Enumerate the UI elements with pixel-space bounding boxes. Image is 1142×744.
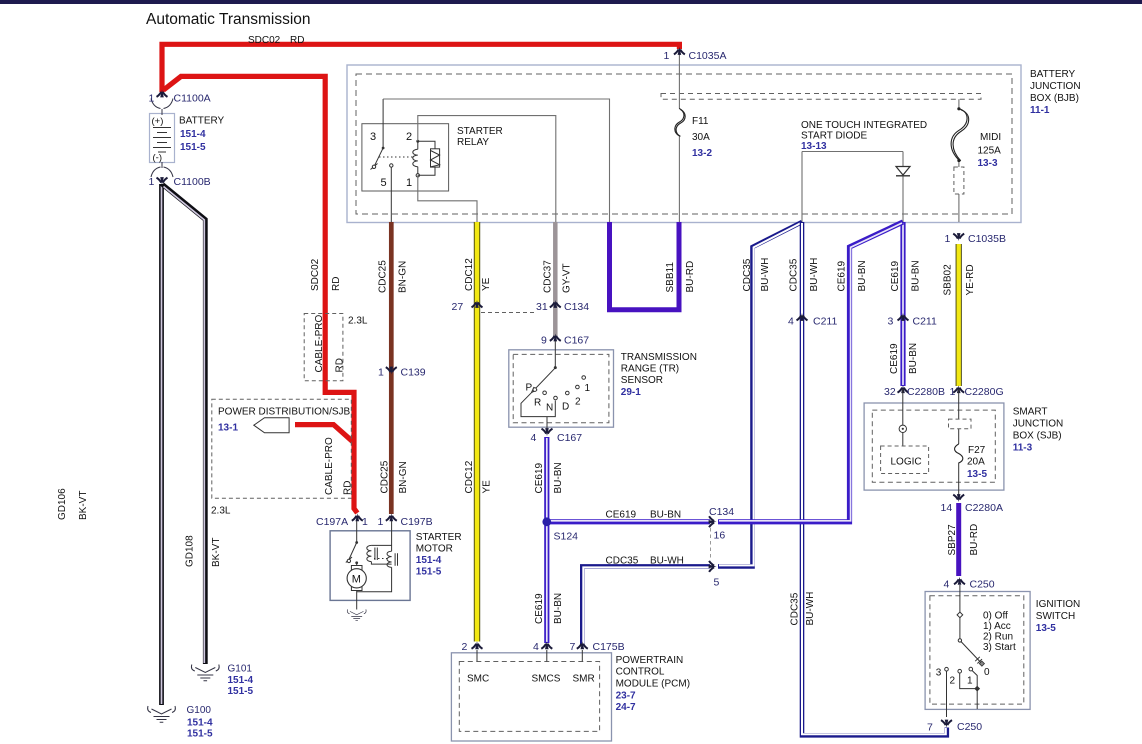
svg-text:S124: S124: [554, 531, 579, 543]
svg-text:1: 1: [945, 233, 951, 245]
label MIDI 125A 13-3: [978, 132, 1002, 169]
svg-text:CDC37: CDC37: [543, 260, 554, 293]
label CE619 BU-BN (above S124): [534, 462, 564, 493]
svg-text:SENSOR: SENSOR: [621, 375, 663, 386]
svg-text:1: 1: [362, 516, 368, 528]
wire SBB11 BU-RD (U shape): [610, 222, 680, 310]
connector 4 C250: [954, 577, 965, 585]
svg-text:CDC12: CDC12: [464, 460, 475, 493]
dashed connector line C134: [710, 528, 712, 560]
label GD106 BK-VT: [57, 488, 89, 520]
svg-text:POWER DISTRIBUTION/SJB: POWER DISTRIBUTION/SJB: [218, 407, 351, 418]
svg-text:BU-RD: BU-RD: [685, 261, 696, 293]
wire relay pin3 to SBB11 (internal BJB): [383, 99, 609, 222]
svg-text:BU-BN: BU-BN: [553, 593, 564, 624]
svg-text:BOX (SJB): BOX (SJB): [1013, 431, 1062, 442]
svg-text:31: 31: [536, 301, 548, 313]
svg-text:C167: C167: [564, 335, 589, 347]
svg-text:1: 1: [664, 50, 670, 62]
power distribution dashed box: [212, 399, 351, 498]
svg-text:C1035A: C1035A: [689, 50, 727, 62]
svg-text:GY-VT: GY-VT: [562, 263, 573, 293]
svg-text:16: 16: [714, 530, 726, 542]
svg-text:CE619: CE619: [534, 593, 545, 624]
wire SDC02 RD battery to C1035A (red top): [162, 44, 679, 92]
label CABLE-PRO RD (top box): [314, 314, 345, 372]
svg-text:11-1: 11-1: [1030, 105, 1050, 116]
svg-text:JUNCTION: JUNCTION: [1013, 419, 1064, 430]
connector 31 C134: [550, 300, 561, 308]
svg-text:RD: RD: [343, 481, 354, 495]
ground G100: [148, 706, 176, 722]
svg-text:BU-WH: BU-WH: [650, 556, 684, 567]
connector C134 pin 5: [709, 561, 717, 572]
svg-text:POWERTRAIN: POWERTRAIN: [616, 655, 684, 666]
LOGIC dashed box: [881, 446, 929, 474]
PCM inner dashed: [459, 662, 599, 732]
svg-text:1: 1: [149, 93, 155, 105]
power distribution pentagon arrow: [254, 418, 289, 433]
label POWER DISTRIBUTION/SJB 13-1: [218, 407, 351, 434]
svg-text:2: 2: [950, 676, 956, 687]
TR sensor terminals: [533, 376, 586, 400]
svg-text:C1035B: C1035B: [968, 233, 1006, 245]
splice S124: [542, 517, 551, 526]
label SBB02 YE-RD: [942, 264, 976, 296]
svg-text:125A: 125A: [978, 146, 1002, 157]
svg-text:4: 4: [944, 579, 950, 591]
connector C134 pin 16: [709, 516, 717, 527]
connector C197B: [386, 513, 397, 521]
wire CE619 BU-BN (diode to LOGIC branch): [900, 222, 905, 386]
svg-text:BU-BN: BU-BN: [908, 343, 919, 374]
svg-text:MOTOR: MOTOR: [416, 544, 453, 555]
label TRANSMISSION RANGE (TR) SENSOR 29-1: [621, 352, 697, 398]
label SDC02 RD (vertical): [310, 258, 342, 291]
svg-text:G101: G101: [228, 664, 253, 675]
svg-text:MODULE (PCM): MODULE (PCM): [616, 679, 690, 690]
svg-text:N: N: [546, 403, 553, 414]
svg-text:2.3L: 2.3L: [211, 506, 231, 517]
svg-text:C197A: C197A: [316, 516, 348, 528]
wire CDC35 BU-WH (diode to C134-5 branch): [718, 222, 802, 566]
svg-text:SMART: SMART: [1013, 407, 1048, 418]
svg-text:13-5: 13-5: [967, 469, 987, 480]
svg-text:151-4: 151-4: [228, 675, 254, 686]
svg-text:7: 7: [927, 722, 933, 734]
relay pin labels 3 2 5 1: [370, 131, 412, 189]
TR sensor selector: [521, 341, 555, 433]
svg-text:SWITCH: SWITCH: [1036, 611, 1075, 622]
MIDI holder dashed: [954, 167, 964, 194]
svg-text:BN-GN: BN-GN: [398, 461, 409, 493]
smart junction box SJB: [864, 403, 1004, 490]
svg-text:G100: G100: [187, 705, 212, 716]
svg-text:SBB11: SBB11: [665, 262, 676, 293]
connector C197A: [352, 513, 363, 521]
label CDC25 BN-GN (upper): [377, 260, 408, 293]
svg-text:C134: C134: [709, 506, 734, 518]
relay terminal 5 circle: [390, 164, 393, 167]
svg-text:CDC25: CDC25: [377, 260, 388, 293]
svg-text:C1100B: C1100B: [174, 176, 211, 188]
svg-text:Automatic Transmission: Automatic Transmission: [146, 11, 311, 28]
TR sensor position letters: [526, 383, 591, 414]
connector pin 27: [472, 300, 483, 308]
label CDC25 BN-GN (lower): [380, 460, 410, 493]
label POWERTRAIN CONTROL MODULE (PCM) 23-7 24-7: [616, 655, 690, 713]
svg-text:5: 5: [381, 177, 387, 189]
svg-text:BK-VT: BK-VT: [211, 538, 222, 567]
label CDC35 BU-WH (pair 1): [742, 258, 771, 292]
svg-text:1: 1: [585, 383, 591, 394]
connector C1035A: [674, 47, 685, 55]
svg-text:CE619: CE619: [836, 260, 847, 291]
svg-text:RD: RD: [334, 358, 345, 372]
svg-text:32: 32: [884, 386, 896, 398]
svg-text:C2280G: C2280G: [965, 386, 1004, 398]
svg-text:CABLE-PRO: CABLE-PRO: [314, 314, 325, 372]
svg-text:SDC02: SDC02: [248, 35, 281, 46]
svg-text:BU-WH: BU-WH: [805, 592, 816, 626]
svg-text:1: 1: [967, 676, 973, 687]
svg-text:M: M: [352, 574, 361, 586]
svg-text:SMC: SMC: [467, 674, 489, 685]
ignition switch internals: [947, 585, 983, 717]
svg-text:P: P: [526, 383, 533, 394]
svg-text:13-2: 13-2: [692, 148, 712, 159]
wire SDC02 RD battery to C197A (red branch): [164, 76, 358, 513]
svg-text:SDC02: SDC02: [310, 258, 321, 291]
svg-text:START DIODE: START DIODE: [801, 131, 867, 142]
svg-text:CDC35: CDC35: [789, 592, 800, 625]
relay coil-resistor connections: [418, 141, 435, 175]
svg-text:CE619: CE619: [890, 260, 901, 291]
svg-text:5: 5: [714, 577, 720, 589]
label SBB11 BU-RD: [665, 261, 696, 293]
connector C139: [386, 367, 397, 375]
starter relay box: [362, 124, 449, 191]
svg-text:3: 3: [370, 131, 376, 143]
svg-text:CDC35: CDC35: [606, 556, 639, 567]
SJB fuse F27 wiring: [958, 389, 960, 498]
svg-text:13-3: 13-3: [978, 158, 998, 169]
svg-text:CDC35: CDC35: [789, 258, 800, 291]
svg-text:C175B: C175B: [593, 641, 625, 653]
wire SBP27 BU-RD: [956, 503, 961, 576]
svg-text:RANGE (TR): RANGE (TR): [621, 364, 679, 375]
svg-text:CONTROL: CONTROL: [616, 667, 665, 678]
label CE619 BU-BN (pair 2): [890, 260, 922, 291]
F27 holder dashed: [949, 419, 972, 429]
wire CE619 BU-BN S124 to C134-16 (horizontal): [548, 521, 710, 522]
svg-text:151-5: 151-5: [228, 686, 254, 697]
fuse MIDI wiring: [958, 99, 960, 222]
label CDC12 YE (lower): [464, 460, 493, 493]
label SBP27 BU-RD: [947, 524, 980, 556]
relay resistor: [431, 149, 440, 167]
diode D1: [896, 167, 910, 176]
label STARTER RELAY: [457, 126, 503, 148]
label BATTERY 151-4 151-5: [179, 116, 225, 154]
svg-text:LOGIC: LOGIC: [891, 457, 922, 468]
svg-text:YE: YE: [482, 480, 493, 494]
svg-text:0) Off: 0) Off: [983, 611, 1008, 622]
svg-text:F27: F27: [968, 445, 986, 456]
svg-text:CDC12: CDC12: [464, 258, 475, 291]
svg-text:24-7: 24-7: [616, 702, 636, 713]
svg-text:2: 2: [406, 131, 412, 143]
svg-text:RELAY: RELAY: [457, 137, 489, 148]
svg-text:C211: C211: [813, 316, 837, 328]
svg-text:ONE TOUCH INTEGRATED: ONE TOUCH INTEGRATED: [801, 120, 927, 131]
label SMART JUNCTION BOX (SJB) 11-3: [1013, 407, 1064, 454]
connector C1035B: [953, 233, 964, 241]
label CE619 BU-BN (below S124): [534, 593, 564, 624]
ignition inner dashed: [930, 596, 1024, 704]
svg-text:1) Acc: 1) Acc: [983, 621, 1011, 632]
svg-text:JUNCTION: JUNCTION: [1030, 81, 1081, 92]
svg-text:CDC35: CDC35: [742, 258, 753, 291]
svg-text:1: 1: [149, 176, 155, 188]
svg-text:3: 3: [936, 668, 942, 679]
svg-text:RD: RD: [290, 35, 304, 46]
connector C1100B: [151, 162, 173, 177]
dashed link pin27 to C134: [481, 312, 537, 314]
svg-text:CE619: CE619: [889, 343, 900, 374]
connector 3 C211: [898, 313, 909, 321]
wire CDC12 YE: [474, 222, 480, 642]
label CDC37 GY-VT: [543, 260, 573, 293]
connector 9 C167: [550, 334, 561, 342]
svg-text:C250: C250: [957, 721, 982, 733]
svg-text:4: 4: [533, 641, 539, 653]
svg-text:(+): (+): [152, 116, 164, 127]
relay switch blade: [371, 99, 384, 170]
label CDC35 BU-WH (ignition riser): [789, 592, 816, 626]
powertrain control module PCM box: [451, 653, 611, 741]
svg-text:BATTERY: BATTERY: [179, 116, 225, 127]
svg-text:13-1: 13-1: [218, 423, 238, 434]
label CE619 BU-BN (below C211): [889, 343, 919, 374]
ignition positions legend: [983, 611, 1016, 654]
svg-text:151-4: 151-4: [180, 129, 206, 140]
fuse F27: [955, 444, 963, 463]
PCM pin 7 SMR C175B: [577, 641, 588, 649]
wire CE619 BU-BN TR sensor to S124 to PCM: [544, 437, 549, 643]
svg-text:RD: RD: [331, 277, 342, 291]
ignition switch box: [925, 592, 1030, 710]
connector 4 C211: [797, 313, 808, 321]
svg-text:151-4: 151-4: [187, 718, 213, 729]
svg-text:2: 2: [575, 397, 581, 408]
svg-text:3) Start: 3) Start: [983, 642, 1016, 653]
svg-text:BU-WH: BU-WH: [760, 258, 771, 292]
ground (starter motor): [347, 609, 366, 620]
svg-text:STARTER: STARTER: [457, 126, 503, 137]
svg-text:151-5: 151-5: [180, 142, 206, 153]
svg-text:CE619: CE619: [606, 510, 637, 521]
connector 4 C167: [542, 428, 553, 436]
SJB logic input symbol: [902, 389, 904, 425]
svg-text:(-): (-): [153, 153, 163, 164]
svg-text:BK-VT: BK-VT: [78, 491, 89, 520]
svg-text:13-13: 13-13: [801, 141, 827, 152]
fuse MIDI: [951, 109, 967, 161]
svg-text:C134: C134: [564, 301, 589, 313]
svg-text:CABLE-PRO: CABLE-PRO: [324, 437, 335, 495]
svg-text:TRANSMISSION: TRANSMISSION: [621, 352, 697, 363]
svg-text:C167: C167: [557, 432, 582, 444]
cable-pro dashed box (top): [304, 314, 343, 381]
svg-text:MIDI: MIDI: [980, 132, 1001, 143]
fuse F11: [675, 108, 684, 135]
svg-text:11-3: 11-3: [1013, 443, 1033, 454]
relay terminal 3 pivot dot: [382, 147, 385, 150]
svg-text:R: R: [534, 398, 541, 409]
label STARTER MOTOR 151-4 151-5: [416, 532, 462, 578]
SJB inner dashed: [872, 410, 995, 482]
svg-text:SBP27: SBP27: [947, 524, 958, 556]
label CE619 BU-BN (pair 1): [836, 260, 868, 291]
svg-text:YE-RD: YE-RD: [965, 264, 976, 295]
wire CDC25 BN-GN: [389, 222, 394, 514]
label SDC02 RD (top): [248, 35, 304, 46]
transmission range sensor box: [509, 350, 614, 427]
svg-text:C2280B: C2280B: [907, 386, 945, 398]
label CABLE-PRO RD (power box): [324, 437, 354, 495]
svg-text:IGNITION: IGNITION: [1036, 599, 1080, 610]
svg-text:BU-BN: BU-BN: [650, 510, 681, 521]
wire SBB02 YE-RD: [956, 244, 962, 386]
svg-text:GD108: GD108: [185, 535, 196, 567]
svg-text:C211: C211: [913, 316, 937, 328]
wire CABLE-PRO RD stub to power distribution: [295, 425, 355, 444]
one touch integrated start diode wiring: [802, 152, 903, 223]
wire CDC37 GY-VT: [553, 222, 558, 336]
PCM pin 4 SMCS: [541, 641, 552, 649]
label F27 20A 13-5: [967, 445, 987, 480]
starter motor M: [351, 566, 362, 591]
connector 14 C2280A: [953, 494, 964, 502]
battery symbol: [150, 114, 175, 163]
svg-text:13-5: 13-5: [1036, 623, 1056, 634]
starter motor switch: [346, 521, 357, 566]
svg-text:BU-BN: BU-BN: [857, 260, 868, 291]
svg-text:1: 1: [378, 516, 384, 528]
relay contact circle pin 3 side: [372, 165, 375, 168]
svg-text:2) Run: 2) Run: [983, 632, 1013, 643]
connector 1 C2280G: [953, 385, 964, 393]
wire relay pin1 to CDC12 (internal BJB): [418, 176, 477, 223]
svg-text:CE619: CE619: [534, 462, 545, 493]
PCM pin 2 SMC: [472, 641, 483, 649]
svg-text:2: 2: [462, 641, 468, 653]
connector C1100A: [157, 90, 168, 98]
svg-text:C197B: C197B: [401, 516, 433, 528]
label BATTERY JUNCTION BOX (BJB) 11-1: [1030, 69, 1081, 116]
svg-text:BN-GN: BN-GN: [397, 261, 408, 293]
svg-text:151-5: 151-5: [187, 729, 213, 740]
svg-text:F11: F11: [692, 116, 709, 127]
svg-text:BU-WH: BU-WH: [809, 258, 820, 292]
battery cable BK-VT to G100: [159, 184, 164, 705]
TR sensor inner dashed: [513, 354, 609, 422]
svg-text:4: 4: [788, 316, 794, 328]
svg-text:C2280A: C2280A: [965, 502, 1003, 514]
ground G101: [191, 665, 219, 681]
relay armature dotted link: [379, 156, 414, 158]
svg-text:23-7: 23-7: [616, 690, 636, 701]
top navy bar: [0, 0, 1142, 4]
connector 32 C2280B: [898, 385, 909, 393]
starter motor solenoid windings: [357, 521, 398, 592]
svg-text:1: 1: [378, 367, 384, 379]
starter motor box: [330, 531, 410, 601]
label F11 30A 13-2: [692, 116, 712, 159]
svg-text:C139: C139: [401, 367, 426, 379]
svg-text:STARTER: STARTER: [416, 532, 462, 543]
BJB bus bar dashed: [661, 94, 981, 100]
label CE619 BU-BN (horizontal run): [606, 510, 682, 521]
relay coil terminal dots: [416, 140, 419, 143]
svg-text:BOX (BJB): BOX (BJB): [1030, 93, 1079, 104]
svg-text:SMCS: SMCS: [532, 674, 561, 685]
svg-text:BU-RD: BU-RD: [969, 524, 980, 556]
label GD108 BK-VT: [185, 535, 222, 567]
svg-text:1: 1: [950, 386, 956, 398]
connector 7 C250: [941, 720, 952, 728]
svg-text:4: 4: [531, 432, 537, 444]
label CDC35 BU-WH (pair 2): [789, 258, 821, 292]
wire CDC35 BU-WH PCM SMR to C134-5 (horizontal): [582, 566, 710, 645]
svg-text:YE: YE: [481, 277, 492, 291]
svg-text:2.3L: 2.3L: [348, 316, 368, 327]
svg-text:SBB02: SBB02: [942, 264, 953, 296]
ignition terminal labels: [936, 667, 990, 687]
svg-text:0: 0: [984, 667, 990, 678]
svg-text:151-4: 151-4: [416, 555, 442, 566]
svg-text:CDC25: CDC25: [380, 460, 391, 493]
svg-text:3: 3: [888, 316, 894, 328]
svg-text:9: 9: [541, 335, 547, 347]
svg-text:151-5: 151-5: [416, 567, 442, 578]
svg-text:14: 14: [941, 502, 953, 514]
relay pin5 wire to BJB bottom: [390, 167, 392, 222]
label CDC12 YE (upper): [464, 258, 492, 291]
label ONE TOUCH INTEGRATED START DIODE 13-13: [801, 120, 927, 152]
svg-text:29-1: 29-1: [621, 387, 641, 398]
label CDC35 BU-WH (horizontal run): [606, 556, 684, 567]
svg-text:1: 1: [406, 177, 412, 189]
label IGNITION SWITCH 13-5: [1036, 599, 1080, 634]
svg-text:7: 7: [570, 641, 576, 653]
svg-text:GD106: GD106: [57, 488, 68, 520]
svg-text:SMR: SMR: [573, 674, 595, 685]
wire CE619 BU-BN (diode to C134-16 branch): [718, 222, 903, 522]
svg-text:D: D: [562, 402, 569, 413]
battery junction box BJB outer: [347, 65, 1021, 223]
svg-text:BU-BN: BU-BN: [553, 462, 564, 493]
battery cable BK-VT to G101: [163, 185, 206, 665]
wire relay pin2 to CDC37 (internal BJB): [418, 116, 556, 222]
svg-text:BU-BN: BU-BN: [910, 260, 921, 291]
starter motor ground lead: [356, 591, 358, 610]
battery junction box BJB inner dashed: [356, 74, 1012, 214]
relay coil: [413, 141, 418, 175]
svg-text:C1100A: C1100A: [174, 93, 211, 105]
wire C1035A through F11 fuse (internal BJB): [678, 54, 680, 222]
